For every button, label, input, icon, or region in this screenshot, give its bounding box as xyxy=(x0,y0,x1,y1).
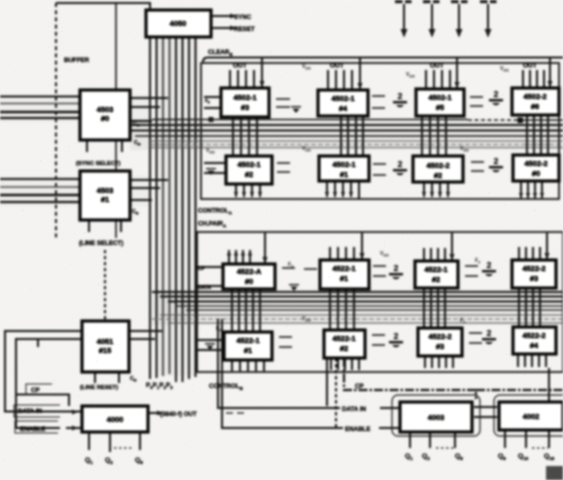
svg-text:#6: #6 xyxy=(531,102,539,111)
svg-text:DATA: DATA xyxy=(198,285,212,291)
svg-text:Q1: Q1 xyxy=(85,457,93,465)
svg-text:CP: CP xyxy=(198,266,206,272)
svg-text:(SYNC SELECT): (SYNC SELECT) xyxy=(76,161,121,167)
svg-text:#1: #1 xyxy=(101,195,109,204)
svg-text:4502-2: 4502-2 xyxy=(523,92,546,101)
svg-text:4502-2: 4502-2 xyxy=(426,161,449,170)
svg-text:CH.PAIRA: CH.PAIRA xyxy=(198,221,227,229)
svg-text:4522-2: 4522-2 xyxy=(522,331,545,340)
svg-text:4051: 4051 xyxy=(97,337,114,346)
svg-text:4522-2: 4522-2 xyxy=(428,332,451,341)
svg-text:Q9: Q9 xyxy=(498,453,506,461)
svg-text:4502-1: 4502-1 xyxy=(237,160,260,169)
svg-text:#0: #0 xyxy=(532,169,540,178)
svg-text:DATA IN: DATA IN xyxy=(18,408,42,415)
svg-text:#5: #5 xyxy=(436,103,444,112)
svg-text:OUT: OUT xyxy=(430,63,444,70)
svg-text:4522-1: 4522-1 xyxy=(332,334,355,343)
svg-text:4522-1: 4522-1 xyxy=(332,264,355,273)
svg-text:#4: #4 xyxy=(530,341,539,350)
svg-text:Q2: Q2 xyxy=(422,453,430,461)
svg-text:F0: F0 xyxy=(288,262,293,269)
svg-text:P0P1P2P3: P0P1P2P3 xyxy=(146,382,173,390)
svg-text:(LINE SELECT): (LINE SELECT) xyxy=(79,240,123,247)
svg-text:F0: F0 xyxy=(475,258,480,265)
svg-text:OUT: OUT xyxy=(233,63,247,70)
svg-text:DATA IN: DATA IN xyxy=(342,406,366,413)
svg-text:#2: #2 xyxy=(432,275,440,284)
svg-text:VDD: VDD xyxy=(380,251,389,258)
svg-text:BUFFER: BUFFER xyxy=(64,57,90,64)
svg-text:F0: F0 xyxy=(205,98,210,105)
svg-text:Q8: Q8 xyxy=(135,457,143,465)
svg-text:#4: #4 xyxy=(339,104,348,113)
svg-text:CN: CN xyxy=(132,209,139,216)
svg-text:CP: CP xyxy=(31,387,40,394)
svg-text:VDD: VDD xyxy=(406,72,415,79)
svg-text:ENABLE: ENABLE xyxy=(345,426,370,433)
svg-text:4000: 4000 xyxy=(107,415,124,424)
svg-text:Q16: Q16 xyxy=(544,453,555,461)
svg-text:4522-1: 4522-1 xyxy=(236,336,259,345)
svg-text:Q2: Q2 xyxy=(105,457,113,465)
svg-text:CN: CN xyxy=(130,376,137,383)
svg-text:CONTROLB: CONTROLB xyxy=(209,383,244,391)
svg-text:4503: 4503 xyxy=(97,186,114,195)
svg-text:OUT: OUT xyxy=(523,63,537,70)
svg-text:#3: #3 xyxy=(436,342,444,351)
svg-text:4522-1: 4522-1 xyxy=(424,265,447,274)
svg-text:4502-1: 4502-1 xyxy=(331,94,354,103)
svg-text:ENABLE: ENABLE xyxy=(20,426,45,433)
svg-text:VDD: VDD xyxy=(302,64,311,71)
svg-text:4050: 4050 xyxy=(170,19,187,28)
svg-text:#3: #3 xyxy=(241,103,249,112)
svg-text:#2: #2 xyxy=(245,170,253,179)
svg-text:4522-A: 4522-A xyxy=(237,267,262,276)
svg-text:SYNC: SYNC xyxy=(234,14,252,21)
svg-text:#1: #1 xyxy=(340,274,348,283)
svg-text:(3840·f) OUT: (3840·f) OUT xyxy=(160,411,197,418)
svg-text:#2: #2 xyxy=(434,171,442,180)
svg-text:Q8: Q8 xyxy=(455,453,463,461)
svg-text:CONTROLA: CONTROLA xyxy=(198,208,233,216)
svg-text:Q1: Q1 xyxy=(405,453,413,461)
svg-text:4502-2: 4502-2 xyxy=(524,159,547,168)
svg-text:4502-1: 4502-1 xyxy=(233,93,256,102)
svg-text:OUT: OUT xyxy=(330,63,344,70)
svg-text:#15: #15 xyxy=(99,346,112,355)
svg-text:4503: 4503 xyxy=(97,105,114,114)
svg-text:#0: #0 xyxy=(245,277,253,286)
svg-text:4502-1: 4502-1 xyxy=(332,160,355,169)
svg-text:Q10: Q10 xyxy=(518,453,529,461)
svg-text:RESET: RESET xyxy=(234,26,255,33)
svg-text:4003: 4003 xyxy=(428,413,445,422)
svg-text:#1: #1 xyxy=(340,170,348,179)
svg-text:4522-2: 4522-2 xyxy=(522,264,545,273)
svg-text:4502-1: 4502-1 xyxy=(428,93,451,102)
svg-text:4002: 4002 xyxy=(523,412,540,421)
svg-text:#1: #1 xyxy=(244,346,252,355)
svg-text:#2: #2 xyxy=(340,344,348,353)
svg-text:CLEARB: CLEARB xyxy=(208,49,233,57)
svg-text:VDD: VDD xyxy=(500,66,509,73)
svg-text:#0: #0 xyxy=(101,114,109,123)
svg-text:CP: CP xyxy=(355,383,364,390)
svg-text:(LINE RESET): (LINE RESET) xyxy=(80,385,118,391)
svg-text:#3: #3 xyxy=(530,274,538,283)
svg-text:F0: F0 xyxy=(216,326,221,333)
